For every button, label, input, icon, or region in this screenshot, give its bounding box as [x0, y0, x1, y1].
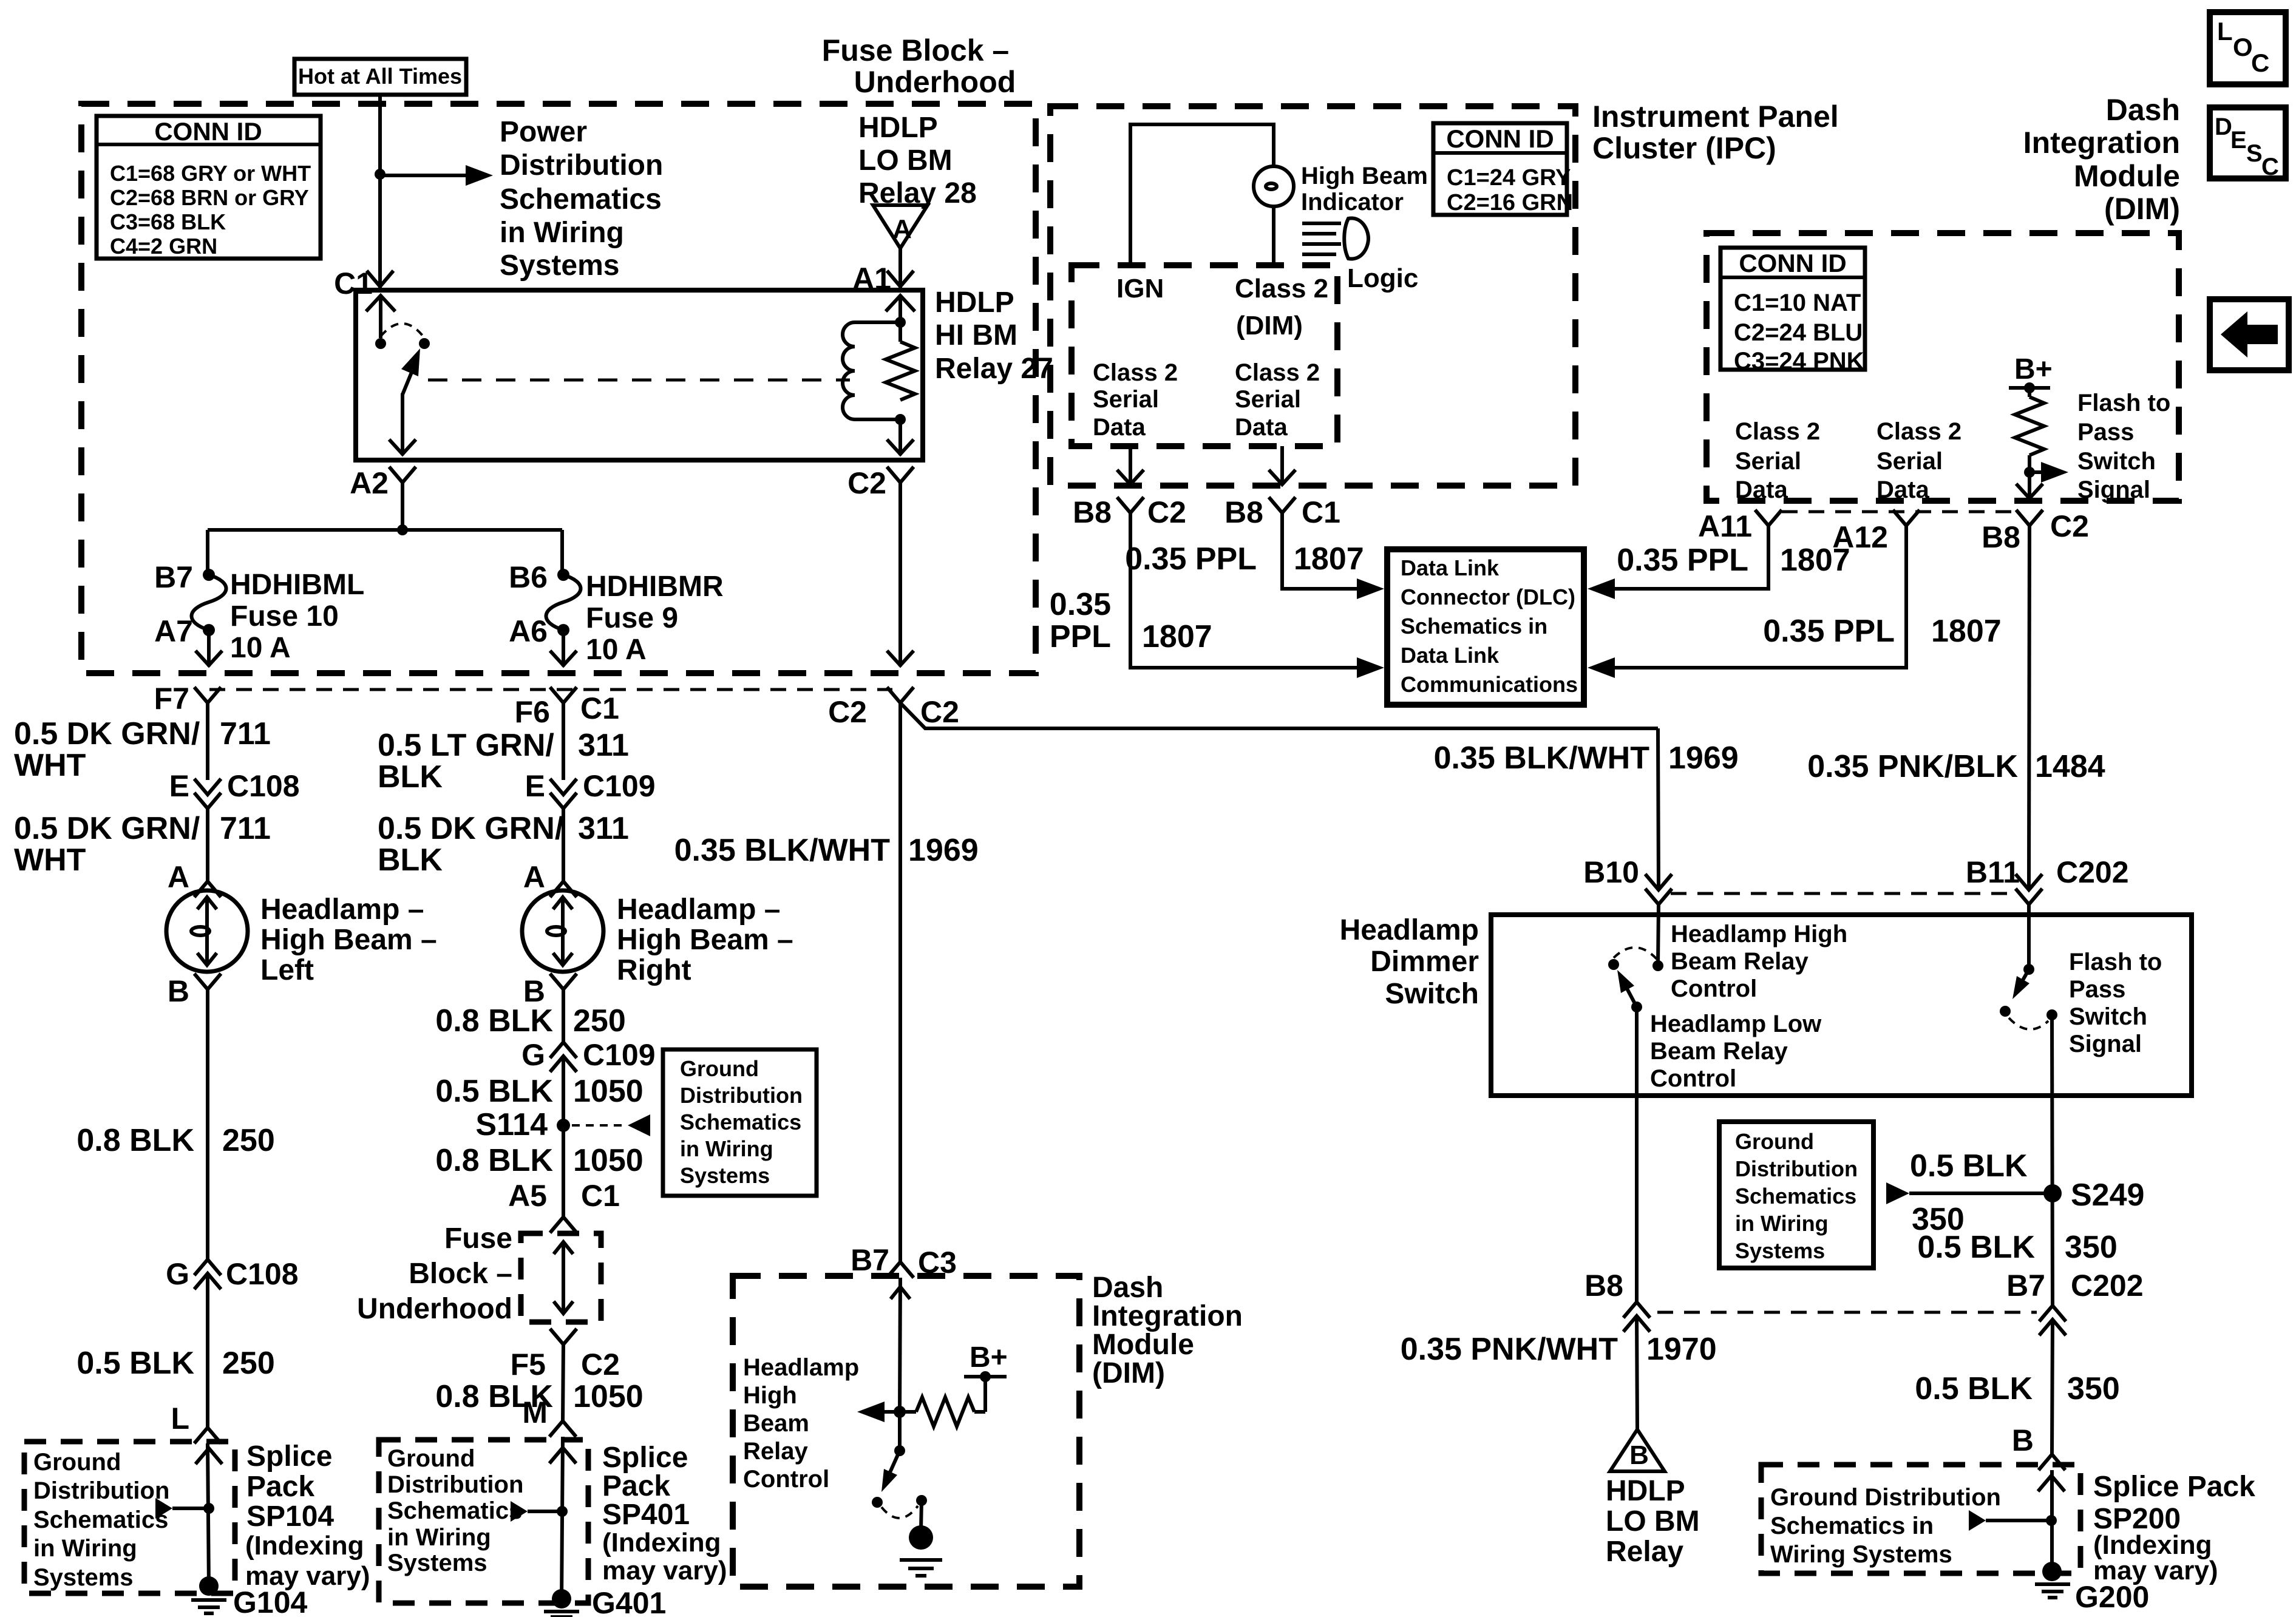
svg-text:Block –: Block –	[409, 1258, 512, 1290]
connector row under DIM	[1782, 510, 2016, 514]
svg-text:in Wiring: in Wiring	[387, 1524, 491, 1551]
wire flash to pass signal down	[2052, 1015, 2053, 1306]
ground G401	[544, 1589, 579, 1617]
svg-text:250: 250	[573, 1003, 626, 1039]
svg-text:B: B	[168, 974, 189, 1008]
wire B8 down to relay B	[1637, 1316, 1637, 1429]
svg-text:C108: C108	[227, 769, 300, 803]
svg-text:E: E	[169, 769, 189, 803]
svg-text:1484: 1484	[2035, 749, 2105, 784]
svg-text:711: 711	[220, 716, 271, 751]
svg-text:C109: C109	[583, 769, 656, 803]
svg-text:0.5 BLK: 0.5 BLK	[76, 1346, 194, 1381]
svg-text:B+: B+	[2014, 353, 2053, 385]
svg-text:B6: B6	[509, 560, 548, 594]
fuse 9 HDHIBMR (B6/A6)	[546, 569, 581, 636]
svg-text:0.5 BLK: 0.5 BLK	[435, 1074, 553, 1109]
wire B10 into dimmer	[1658, 904, 1659, 966]
svg-text:A7: A7	[154, 614, 193, 648]
svg-text:Switch: Switch	[1385, 978, 1479, 1010]
wire G down to L	[206, 1273, 209, 1428]
svg-text:0.35 PPL: 0.35 PPL	[1617, 543, 1748, 578]
svg-text:Schematics: Schematics	[680, 1110, 801, 1134]
svg-text:Systems: Systems	[387, 1550, 487, 1576]
svg-text:Schematics: Schematics	[33, 1507, 168, 1533]
svg-text:Class 2: Class 2	[1735, 418, 1820, 445]
svg-text:0.5 BLK: 0.5 BLK	[1917, 1230, 2035, 1265]
svg-text:Pass: Pass	[2077, 419, 2134, 446]
svg-text:A11: A11	[1698, 509, 1752, 543]
svg-text:A: A	[892, 214, 912, 244]
svg-text:Fuse 10: Fuse 10	[230, 600, 339, 632]
svg-text:O: O	[2233, 33, 2253, 61]
svg-text:C: C	[2251, 49, 2269, 77]
wire fuse9 output to boundary	[562, 630, 565, 666]
SP401 reference arrow	[511, 1501, 528, 1522]
svg-text:Data: Data	[1735, 476, 1788, 503]
svg-text:Signal: Signal	[2077, 476, 2150, 503]
svg-text:10 A: 10 A	[230, 632, 291, 664]
svg-text:0.8 BLK: 0.8 BLK	[435, 1003, 553, 1039]
svg-text:B8: B8	[1982, 520, 2020, 554]
svg-text:S249: S249	[2071, 1178, 2144, 1213]
svg-text:C2: C2	[847, 466, 886, 500]
relay 27 internal control dashed line	[428, 379, 850, 382]
svg-text:Cluster (IPC): Cluster (IPC)	[1592, 131, 1776, 165]
dimmer high beam switch	[1608, 947, 1663, 1007]
wire C2 from relay down through boundary	[898, 483, 902, 666]
svg-text:Wiring Systems: Wiring Systems	[1770, 1541, 1952, 1568]
svg-text:Power: Power	[500, 116, 587, 148]
pass-through wire in small fuse box	[554, 1242, 573, 1314]
ground distribution schematics note box (right)	[1719, 1122, 1873, 1268]
svg-text:(DIM): (DIM)	[1092, 1357, 1165, 1389]
svg-text:(Indexing: (Indexing	[245, 1531, 364, 1561]
svg-text:in Wiring: in Wiring	[680, 1136, 773, 1161]
svg-text:311: 311	[578, 728, 629, 763]
svg-text:Headlamp: Headlamp	[743, 1354, 859, 1381]
svg-text:L: L	[171, 1402, 189, 1436]
svg-text:Ground Distribution: Ground Distribution	[1770, 1484, 2001, 1511]
CONN ID table (fuse block)	[97, 116, 321, 259]
svg-text:LO BM: LO BM	[858, 144, 953, 177]
wire B8/C2 to DLC	[1130, 513, 1359, 668]
svg-text:Splice: Splice	[246, 1440, 332, 1473]
svg-text:C109: C109	[583, 1038, 656, 1072]
headlamp dimmer switch box	[1491, 915, 2192, 1096]
svg-text:HDHIBML: HDHIBML	[230, 569, 364, 601]
relay 27 switch (left)	[366, 296, 430, 455]
svg-text:High Beam –: High Beam –	[260, 924, 437, 956]
svg-text:350: 350	[2067, 1371, 2120, 1406]
wire B down to G	[206, 989, 209, 1260]
splice pack SP401 ground distribution dashed box	[379, 1440, 588, 1603]
wire B7 down to B	[2052, 1320, 2053, 1454]
svg-text:Flash to: Flash to	[2069, 949, 2162, 975]
svg-text:A1: A1	[852, 262, 891, 296]
svg-text:Module: Module	[2074, 159, 2180, 193]
fuse 10 HDHIBML (B7/A7)	[192, 569, 226, 636]
svg-text:Serial: Serial	[1093, 386, 1159, 413]
svg-text:CONN ID: CONN ID	[154, 117, 262, 146]
svg-text:Integration: Integration	[2023, 126, 2180, 160]
svg-text:C108: C108	[226, 1257, 299, 1291]
IPC class2 output wires	[1129, 446, 1132, 484]
svg-text:S: S	[2246, 140, 2263, 167]
svg-text:Dimmer: Dimmer	[1370, 946, 1479, 978]
svg-text:Distribution: Distribution	[680, 1083, 803, 1108]
svg-text:B7: B7	[154, 560, 193, 594]
svg-text:SP401: SP401	[602, 1499, 690, 1531]
svg-text:Schematics: Schematics	[1735, 1184, 1856, 1209]
svg-text:0.35: 0.35	[1050, 587, 1111, 622]
svg-text:0.5 BLK: 0.5 BLK	[1915, 1371, 2033, 1406]
svg-text:HI BM: HI BM	[935, 319, 1017, 351]
wire: arrow to Power Distribution Schematics	[380, 174, 467, 177]
svg-text:C2=24 BLU: C2=24 BLU	[1734, 319, 1863, 346]
wire F7 to C108	[206, 703, 209, 780]
svg-text:Schematics: Schematics	[500, 183, 662, 215]
svg-text:Communications: Communications	[1401, 672, 1578, 697]
svg-text:C202: C202	[2056, 855, 2129, 889]
svg-text:A6: A6	[509, 614, 548, 648]
svg-text:M: M	[522, 1395, 548, 1429]
fuse block underhood module dashed box	[81, 104, 1036, 673]
svg-text:High: High	[743, 1382, 797, 1409]
svg-text:Control: Control	[1650, 1065, 1736, 1092]
svg-text:0.8 BLK: 0.8 BLK	[76, 1123, 194, 1158]
svg-text:Ground: Ground	[387, 1445, 475, 1472]
svg-text:Beam Relay: Beam Relay	[1671, 948, 1809, 975]
svg-text:B7: B7	[851, 1243, 889, 1277]
svg-text:C2=16 GRN: C2=16 GRN	[1447, 190, 1573, 215]
DESC box	[2210, 107, 2286, 180]
ground G200	[2035, 1562, 2070, 1598]
svg-text:C2=68 BRN or GRY: C2=68 BRN or GRY	[110, 185, 309, 210]
svg-text:C3=68 BLK: C3=68 BLK	[110, 209, 226, 234]
relay 28 triangle terminal A	[873, 205, 928, 248]
svg-text:1807: 1807	[1931, 614, 2002, 649]
splice S249	[2043, 1184, 2062, 1202]
svg-text:LO BM: LO BM	[1606, 1505, 1700, 1537]
svg-text:High Beam –: High Beam –	[617, 924, 793, 956]
svg-text:C202: C202	[2071, 1269, 2144, 1303]
svg-text:0.5 BLK: 0.5 BLK	[1910, 1148, 2028, 1184]
splice pack SP104 ground distribution dashed box	[24, 1442, 235, 1593]
wire B8/C2 down to B11	[2029, 526, 2029, 889]
wire into splice pack SP104	[208, 1443, 209, 1588]
svg-text:Serial: Serial	[1735, 448, 1801, 475]
svg-text:1050: 1050	[573, 1074, 644, 1109]
wire A12 to DLC	[1614, 526, 1906, 668]
svg-text:711: 711	[220, 811, 271, 846]
svg-text:B7: B7	[2006, 1269, 2045, 1303]
svg-text:Dash: Dash	[2106, 93, 2180, 127]
connector C202 dashed row (bottom)	[1657, 1311, 2037, 1314]
wire A11 to DLC	[1614, 526, 1768, 589]
relay terminal triangle B	[1610, 1429, 1665, 1471]
svg-text:Splice Pack: Splice Pack	[2093, 1471, 2255, 1503]
svg-text:WHT: WHT	[14, 748, 86, 783]
wire from triangle A to A1	[898, 248, 902, 290]
svg-text:D: D	[2215, 114, 2232, 140]
svg-text:Distribution: Distribution	[500, 149, 663, 181]
svg-text:250: 250	[222, 1346, 275, 1381]
svg-text:A: A	[523, 860, 545, 894]
svg-text:Underhood: Underhood	[854, 65, 1016, 99]
svg-text:Beam: Beam	[743, 1410, 809, 1437]
DIM internal switch	[872, 1412, 927, 1518]
SP200 reference arrow	[1969, 1510, 1986, 1531]
svg-text:C1=10 NAT: C1=10 NAT	[1734, 290, 1861, 316]
svg-text:C4=2 GRN: C4=2 GRN	[110, 234, 217, 259]
svg-text:L: L	[2217, 17, 2233, 46]
svg-text:Systems: Systems	[680, 1163, 770, 1188]
svg-text:E: E	[2230, 127, 2247, 154]
label: Hot at All Times	[294, 59, 466, 95]
svg-text:Relay: Relay	[1606, 1536, 1683, 1568]
svg-text:Schematics: Schematics	[387, 1497, 522, 1524]
svg-text:PPL: PPL	[1050, 619, 1111, 654]
svg-text:Data: Data	[1235, 414, 1288, 441]
svg-text:F5: F5	[511, 1347, 546, 1381]
svg-text:0.35 PPL: 0.35 PPL	[1125, 541, 1257, 577]
dash integration module DIM dashed box (top right)	[1707, 233, 2179, 501]
wire into SP200	[2050, 1470, 2054, 1571]
svg-text:0.35 BLK/WHT: 0.35 BLK/WHT	[1434, 741, 1650, 776]
svg-text:Schematics in: Schematics in	[1401, 614, 1547, 639]
svg-text:Pack: Pack	[246, 1471, 314, 1503]
wire B down	[562, 989, 565, 1042]
wire fuse10 output to boundary	[207, 630, 211, 666]
splice pack SP200 ground distribution dashed box	[1761, 1465, 2080, 1573]
svg-text:Ground: Ground	[33, 1449, 121, 1476]
svg-text:Module: Module	[1092, 1329, 1194, 1361]
svg-text:1050: 1050	[573, 1379, 644, 1414]
svg-text:1969: 1969	[908, 833, 979, 868]
DIM high beam relay control drive	[857, 1341, 1008, 1426]
svg-text:Flash to: Flash to	[2077, 390, 2170, 416]
fuse block underhood small dashed box	[521, 1233, 601, 1322]
high beam indicator lamp	[1254, 166, 1294, 206]
svg-text:Schematics in: Schematics in	[1770, 1513, 1934, 1539]
svg-text:1969: 1969	[1668, 741, 1739, 776]
svg-text:0.8 BLK: 0.8 BLK	[435, 1143, 553, 1178]
wire: battery feed from Hot at All Times down to relay	[378, 95, 382, 290]
svg-text:B8: B8	[1073, 495, 1112, 529]
svg-text:B+: B+	[970, 1341, 1008, 1374]
headlamp high beam right	[522, 890, 603, 972]
svg-text:Control: Control	[1671, 975, 1757, 1002]
svg-text:Right: Right	[617, 954, 691, 986]
svg-text:Data: Data	[1093, 414, 1146, 441]
svg-text:C: C	[2261, 154, 2279, 180]
svg-text:HDLP: HDLP	[1606, 1475, 1685, 1507]
svg-text:Serial: Serial	[1877, 448, 1943, 475]
B+ flash to pass resistor (DIM)	[2009, 353, 2068, 498]
splice S249 feed arrow	[1886, 1182, 1909, 1204]
wire B11 into dimmer flash to pass	[2027, 904, 2031, 969]
svg-text:B: B	[2012, 1423, 2034, 1457]
svg-text:C2: C2	[1147, 495, 1186, 529]
svg-text:(Indexing: (Indexing	[602, 1528, 721, 1558]
wire into splice pack SP401	[562, 1437, 563, 1602]
CONN ID table (IPC)	[1433, 123, 1573, 215]
svg-text:C1: C1	[1302, 495, 1340, 529]
svg-text:10 A: 10 A	[586, 634, 647, 666]
svg-text:may vary): may vary)	[602, 1556, 727, 1585]
svg-text:B11: B11	[1966, 855, 2020, 889]
svg-text:Switch: Switch	[2069, 1003, 2147, 1030]
svg-text:Headlamp: Headlamp	[1340, 914, 1479, 946]
svg-text:IGN: IGN	[1116, 274, 1164, 303]
headlamp high beam left	[166, 890, 248, 972]
svg-text:A12: A12	[1832, 520, 1888, 554]
connector row C108/C109 thin dashed line	[209, 688, 892, 691]
svg-text:C2: C2	[920, 695, 959, 729]
svg-text:Class 2: Class 2	[1235, 359, 1320, 386]
svg-text:Left: Left	[260, 954, 314, 986]
svg-text:G: G	[521, 1038, 545, 1072]
svg-text:Pass: Pass	[2069, 976, 2125, 1003]
HDLP HI BM Relay 27 box	[356, 290, 923, 460]
svg-text:CONN ID: CONN ID	[1739, 249, 1846, 277]
wire to S114	[562, 1056, 565, 1218]
wire: C3 feed down to DIM	[898, 703, 902, 1262]
wire: diagonal from C2 to 1969 run	[900, 703, 1658, 728]
svg-text:B8: B8	[1584, 1269, 1623, 1303]
ground G104	[191, 1576, 226, 1613]
svg-text:Headlamp –: Headlamp –	[617, 893, 780, 926]
svg-text:Logic: Logic	[1347, 263, 1418, 293]
svg-text:in Wiring: in Wiring	[33, 1535, 137, 1562]
svg-text:Distribution: Distribution	[387, 1471, 523, 1498]
SP104 reference arrow	[155, 1498, 172, 1519]
svg-text:Distribution: Distribution	[33, 1477, 169, 1504]
svg-text:Systems: Systems	[1735, 1238, 1825, 1263]
svg-text:High Beam: High Beam	[1301, 163, 1428, 189]
svg-text:Connector (DLC): Connector (DLC)	[1401, 585, 1575, 609]
svg-text:Control: Control	[743, 1466, 829, 1493]
instrument panel cluster IPC dashed box	[1050, 106, 1575, 486]
svg-text:BLK: BLK	[378, 759, 443, 795]
svg-text:Ground: Ground	[680, 1056, 759, 1081]
left arrow nav box	[2210, 299, 2289, 370]
svg-text:BLK: BLK	[378, 842, 443, 878]
svg-text:311: 311	[578, 811, 629, 846]
wire to lamp A right	[562, 808, 565, 881]
svg-text:C2: C2	[2050, 509, 2089, 543]
IPC internal feed wires	[1130, 124, 1274, 265]
junction node on battery feed	[375, 169, 385, 180]
svg-text:0.5 LT GRN/: 0.5 LT GRN/	[378, 728, 554, 763]
svg-text:WHT: WHT	[14, 842, 86, 878]
svg-text:Pack: Pack	[602, 1470, 670, 1502]
svg-text:A5: A5	[508, 1179, 547, 1213]
svg-text:G104: G104	[233, 1585, 308, 1617]
relay 27 coil and resistor (right)	[843, 296, 915, 455]
svg-text:SP104: SP104	[246, 1500, 334, 1533]
svg-text:HDLP: HDLP	[935, 286, 1014, 319]
svg-text:E: E	[525, 769, 545, 803]
svg-text:Instrument Panel: Instrument Panel	[1592, 100, 1839, 134]
svg-text:Class 2: Class 2	[1235, 274, 1328, 303]
svg-text:Switch: Switch	[2077, 448, 2156, 475]
svg-text:Data Link: Data Link	[1401, 555, 1500, 580]
svg-text:0.35 PNK/BLK: 0.35 PNK/BLK	[1807, 749, 2018, 784]
svg-text:0.5 DK GRN/: 0.5 DK GRN/	[378, 811, 563, 846]
wire low beam control down	[1635, 1007, 1639, 1302]
svg-text:HDHIBMR: HDHIBMR	[586, 571, 724, 603]
svg-text:B: B	[1629, 1440, 1649, 1470]
svg-text:Ground: Ground	[1735, 1129, 1814, 1154]
svg-text:CONN ID: CONN ID	[1446, 124, 1554, 153]
svg-text:Class 2: Class 2	[1093, 359, 1178, 386]
wire F5 to M	[563, 1344, 563, 1421]
svg-text:Beam Relay: Beam Relay	[1650, 1038, 1788, 1065]
DIM internal ground	[900, 1500, 942, 1576]
IPC logic inner dashed box	[1072, 265, 1337, 446]
svg-text:1050: 1050	[573, 1143, 644, 1178]
svg-text:A2: A2	[350, 466, 389, 500]
svg-text:F6: F6	[515, 695, 550, 729]
svg-text:A: A	[168, 860, 189, 894]
svg-text:1807: 1807	[1294, 541, 1364, 577]
svg-text:C2: C2	[828, 695, 867, 729]
svg-text:B8: B8	[1224, 495, 1263, 529]
svg-text:G200: G200	[2075, 1580, 2149, 1614]
svg-text:in Wiring: in Wiring	[500, 217, 624, 249]
svg-text:Systems: Systems	[500, 249, 619, 282]
wire: 1969 drop to B10	[1658, 728, 1659, 889]
svg-text:G: G	[166, 1257, 189, 1291]
svg-text:Data Link: Data Link	[1401, 643, 1500, 668]
svg-text:Data: Data	[1877, 476, 1929, 503]
svg-text:B10: B10	[1583, 855, 1639, 889]
dash integration module DIM dashed box (bottom)	[733, 1276, 1079, 1587]
svg-text:Class 2: Class 2	[1877, 418, 1961, 445]
svg-text:C1: C1	[581, 1179, 620, 1213]
svg-text:Integration: Integration	[1092, 1300, 1243, 1332]
svg-text:Fuse 9: Fuse 9	[586, 602, 678, 634]
svg-text:Underhood: Underhood	[357, 1293, 512, 1325]
svg-text:Splice: Splice	[602, 1442, 688, 1474]
svg-text:Serial: Serial	[1235, 386, 1301, 413]
svg-text:Fuse Block –: Fuse Block –	[822, 33, 1009, 67]
svg-text:1970: 1970	[1646, 1332, 1717, 1367]
data link connector DLC note box	[1387, 549, 1584, 705]
LOC box	[2210, 12, 2286, 84]
wire to lamp A	[206, 808, 209, 881]
svg-text:C1=24 GRY: C1=24 GRY	[1447, 165, 1571, 191]
svg-text:in Wiring: in Wiring	[1735, 1211, 1829, 1236]
svg-text:Headlamp Low: Headlamp Low	[1650, 1011, 1822, 1037]
ground distribution schematics note box (middle)	[663, 1049, 817, 1196]
high beam icon	[1302, 219, 1368, 259]
fuse feed bus	[208, 528, 562, 532]
svg-text:Distribution: Distribution	[1735, 1156, 1858, 1181]
svg-text:Hot at All Times: Hot at All Times	[298, 64, 462, 89]
svg-text:C1=68 GRY or WHT: C1=68 GRY or WHT	[110, 161, 311, 186]
svg-text:Headlamp –: Headlamp –	[260, 893, 424, 926]
svg-text:(DIM): (DIM)	[1236, 311, 1303, 341]
wire from A2 down to fuse bus	[401, 483, 404, 530]
dimmer flash to pass switch	[2000, 964, 2057, 1029]
svg-text:0.35 PNK/WHT: 0.35 PNK/WHT	[1401, 1332, 1618, 1367]
svg-text:F7: F7	[154, 682, 189, 716]
connector F5 / C2	[550, 1329, 577, 1344]
svg-text:Systems: Systems	[33, 1564, 134, 1591]
